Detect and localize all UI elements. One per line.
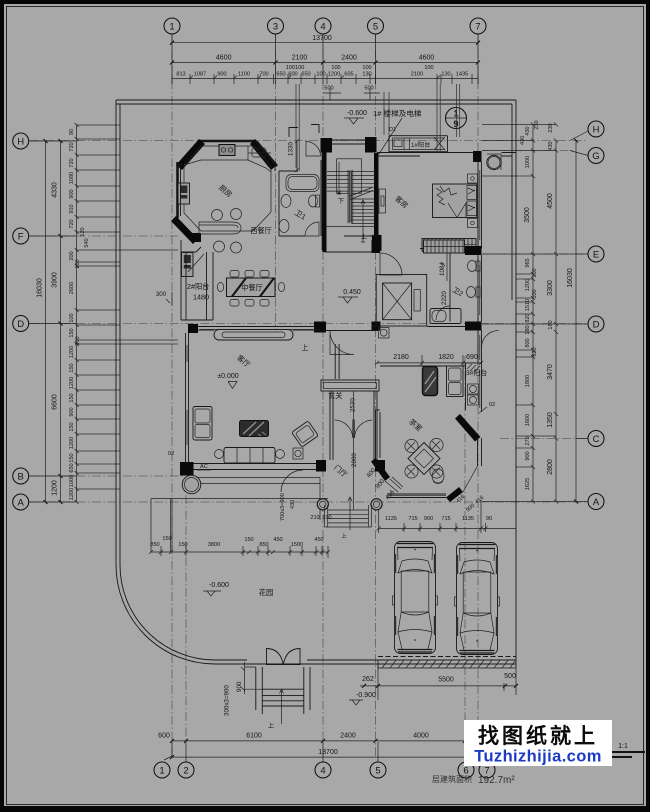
bubble 1 top: [164, 18, 180, 34]
svg-text:4: 4: [320, 22, 325, 33]
svg-text:2800: 2800: [351, 453, 358, 467]
kitchen octagon walls: [171, 139, 277, 244]
svg-text:13700: 13700: [318, 749, 338, 756]
svg-text:900: 900: [217, 72, 226, 78]
left chain ticks: [75, 123, 79, 504]
svg-text:820: 820: [525, 313, 531, 322]
entrance double door: [335, 420, 372, 439]
svg-text:6600: 6600: [52, 394, 59, 410]
grid row E right: [482, 253, 588, 255]
svg-text:1200: 1200: [69, 488, 75, 500]
level -0.600 upper: [344, 110, 367, 124]
west dining bar counter: [199, 222, 241, 234]
svg-text:430: 430: [290, 500, 296, 509]
side table next to armchair: [293, 448, 303, 459]
svg-text:150: 150: [244, 537, 253, 543]
round column top-right: [487, 154, 501, 170]
svg-text:F: F: [18, 232, 24, 243]
svg-text:1200: 1200: [69, 377, 75, 389]
entry double door leaves: [267, 649, 284, 665]
living bottom wall: [180, 464, 326, 470]
quilt scribble: [436, 186, 457, 205]
svg-text:1080: 1080: [69, 172, 75, 184]
bubble H right: [588, 121, 604, 137]
svg-text:650: 650: [69, 463, 75, 472]
grid row H: [30, 140, 588, 142]
bath2 door arc: [436, 306, 450, 320]
svg-text:720: 720: [69, 158, 75, 167]
svg-text:5500: 5500: [438, 677, 454, 684]
svg-text:1435: 1435: [456, 72, 468, 78]
bay SE wall to column: [463, 466, 478, 492]
left grid bubbles: [13, 133, 29, 510]
living top sideboard: [200, 330, 320, 341]
svg-text:500: 500: [504, 673, 516, 680]
svg-text:A: A: [18, 498, 25, 509]
svg-text:90: 90: [69, 129, 75, 135]
svg-text:190: 190: [322, 515, 331, 521]
svg-text:Tuzhizhijia.com: Tuzhizhijia.com: [474, 748, 602, 766]
bath2 toilet 2: [467, 287, 481, 298]
left dim line 16030: [37, 139, 48, 504]
svg-text:2#阳台: 2#阳台: [187, 282, 209, 291]
svg-text:1: 1: [169, 22, 174, 33]
svg-text:720: 720: [69, 219, 75, 228]
living left wall with windows: [186, 333, 189, 463]
stairs: [327, 159, 376, 227]
svg-text:1#阳台: 1#阳台: [411, 141, 430, 149]
bottom bubble leaders: [164, 722, 484, 762]
level -0.900: [349, 692, 376, 705]
svg-text:花园: 花园: [259, 588, 273, 597]
site boundary wall top (double line): [116, 100, 516, 104]
svg-text:1200: 1200: [52, 480, 59, 496]
fold triangle: [457, 203, 466, 218]
svg-text:1# 楼梯及电梯: 1# 楼梯及电梯: [373, 108, 422, 118]
bedroom window mid line: [479, 370, 481, 408]
bubble 7 bottom: [479, 762, 495, 778]
svg-text:-0.900: -0.900: [356, 692, 376, 699]
bubble D right: [588, 316, 604, 332]
svg-text:500: 500: [364, 86, 373, 92]
svg-text:230: 230: [534, 120, 540, 129]
bottom dim 13700: [170, 749, 480, 759]
svg-text:02: 02: [168, 451, 174, 457]
bubble 2 bottom: [178, 762, 194, 778]
svg-text:300x3=900: 300x3=900: [224, 685, 231, 716]
svg-text:中餐厅: 中餐厅: [241, 283, 263, 292]
kitchen left wall parallel: [180, 164, 182, 216]
chairs top: [230, 271, 239, 278]
corridor bottom wall: [427, 326, 465, 328]
svg-text:100: 100: [532, 268, 538, 277]
svg-text:900: 900: [525, 451, 531, 460]
porch up arrow: [348, 497, 352, 530]
black column living SW: [180, 462, 194, 476]
grid col 1: [171, 34, 173, 756]
3# balcony: [466, 363, 488, 412]
porch round column E: [371, 499, 382, 510]
svg-text:200: 200: [69, 251, 75, 260]
wall extension double lines from top chain: [296, 84, 460, 171]
tea room bay: left wall: [376, 410, 381, 461]
svg-text:3300: 3300: [547, 280, 554, 296]
svg-text:2100: 2100: [292, 55, 308, 62]
bubble H left: [13, 133, 29, 149]
right dim line 16030: [567, 139, 578, 504]
steps: [262, 689, 304, 706]
foyer side walls: [330, 391, 377, 460]
svg-text:6100: 6100: [246, 733, 262, 740]
svg-text:850: 850: [150, 542, 159, 548]
svg-text:900: 900: [236, 681, 243, 692]
svg-text:650: 650: [276, 72, 285, 78]
bathtub: [286, 175, 319, 192]
svg-text:1: 1: [159, 766, 164, 777]
site boundary rounded corner arc bottom-left: [116, 565, 215, 664]
tea chairs: [405, 438, 443, 478]
garden steps dim chain: [149, 536, 330, 558]
bubble B left: [13, 468, 29, 484]
svg-text:900: 900: [424, 516, 433, 522]
bubble 4 top: [315, 18, 331, 34]
svg-text:100: 100: [424, 65, 433, 71]
top grid bubbles: [164, 18, 486, 34]
wall segment foyer top: [326, 330, 378, 332]
kitchen NW corner wall: [176, 139, 205, 170]
svg-text:910: 910: [69, 204, 75, 213]
bottom grid bubbles: [154, 762, 495, 778]
svg-text:650: 650: [301, 72, 310, 78]
svg-text:275: 275: [525, 436, 531, 445]
stair arrows: [337, 162, 341, 194]
bubble 4 bottom: [315, 762, 331, 778]
svg-text:层建筑面积: 层建筑面积: [432, 774, 472, 784]
small stool: [432, 469, 444, 484]
grid col 6: [464, 356, 466, 742]
svg-text:上: 上: [361, 233, 367, 241]
corridor bottom door arc to foyer: [330, 331, 354, 355]
coffee table dark: [240, 421, 269, 437]
garden level -0.600: [203, 582, 229, 596]
bubble 1 bottom: [154, 762, 170, 778]
kitchen top wall: [198, 140, 256, 143]
hatch marks chamfer windows: [390, 477, 403, 489]
bubble E right: [588, 246, 604, 262]
svg-text:3900: 3900: [52, 272, 59, 288]
scale mark 1:1 right of watermark: [607, 743, 645, 757]
bubble 3 top: [268, 18, 284, 34]
elevator shaft: [376, 275, 427, 327]
svg-text:1:1: 1:1: [618, 743, 628, 750]
svg-text:下: 下: [338, 198, 344, 205]
bay chamfer SE thick: [446, 487, 463, 502]
svg-text:1200: 1200: [69, 437, 75, 449]
garden terrace edge line: [151, 498, 328, 500]
svg-text:1200: 1200: [525, 279, 531, 291]
bedroom right wall with window: [478, 162, 482, 249]
wall top of stair hall: [332, 140, 365, 144]
closet above bath2: [424, 240, 465, 253]
wall west below kitchen: [180, 240, 182, 252]
tea table diamond: [408, 443, 440, 475]
svg-text:150: 150: [69, 328, 75, 337]
stair SE column: [372, 235, 382, 251]
column bath2 SE: [465, 322, 482, 331]
grid row C right: [500, 438, 588, 440]
svg-text:7: 7: [475, 22, 480, 33]
bedroom wardrobe: [422, 239, 476, 252]
living door arc to terrace: [281, 470, 303, 492]
svg-text:D: D: [17, 319, 24, 330]
svg-text:430: 430: [548, 141, 554, 150]
svg-text:4000: 4000: [413, 733, 429, 740]
svg-text:430: 430: [520, 136, 526, 145]
tea room north wall: [380, 365, 466, 367]
elevator hall door arc: [380, 253, 402, 275]
car 2: [455, 543, 500, 655]
bath2 toilet 1: [468, 261, 481, 272]
bubble G right: [588, 148, 604, 164]
svg-text:192.7m²: 192.7m²: [478, 775, 515, 786]
kitchen interior outline: [184, 146, 271, 231]
svg-text:1087: 1087: [194, 72, 206, 78]
svg-text:700x3=900: 700x3=900: [280, 493, 286, 521]
svg-text:3: 3: [273, 22, 278, 33]
kitchen left wall: [176, 162, 179, 218]
bubble A left: [13, 494, 29, 510]
svg-text:02: 02: [489, 402, 495, 408]
bubble C right: [588, 431, 604, 447]
svg-text:850: 850: [259, 542, 268, 548]
bath1 door arc: [305, 222, 319, 236]
entry porch steps: [224, 649, 311, 731]
right mid dim chain: [547, 123, 558, 504]
window ticks right wall: [479, 265, 481, 360]
bubble 5 top: [368, 18, 384, 34]
svg-text:3470: 3470: [547, 364, 554, 380]
svg-text:H: H: [593, 125, 600, 136]
svg-text:找图纸就上: 找图纸就上: [478, 724, 598, 748]
svg-text:3#阳台: 3#阳台: [466, 368, 487, 377]
svg-text:G: G: [592, 151, 599, 162]
bath1 washbasin: [281, 195, 291, 208]
svg-text:4: 4: [320, 766, 325, 777]
tea room wash basin small: [379, 328, 390, 339]
kitchen fridge left: [178, 183, 190, 204]
corner bracket marks: [289, 125, 319, 138]
bay chamfer SW window: [385, 481, 398, 492]
svg-text:4500: 4500: [547, 193, 554, 209]
fridge dark hatched: [423, 367, 438, 396]
garden step rails left: [151, 499, 172, 553]
bubble D left: [13, 316, 29, 332]
diagonal dims right 416/900/416: [455, 494, 485, 514]
svg-text:16030: 16030: [37, 278, 44, 298]
grid row B: [30, 475, 185, 477]
center arrow line: [280, 689, 284, 724]
site boundary wall bottom: [215, 660, 516, 664]
black column dining SW: [188, 324, 198, 333]
stairwell right wall: [374, 153, 379, 236]
svg-text:上: 上: [268, 722, 274, 730]
svg-text:5: 5: [375, 766, 380, 777]
svg-text:1600: 1600: [525, 414, 531, 426]
right grid bubbles: [588, 121, 604, 510]
svg-text:-0.600: -0.600: [209, 582, 229, 589]
small note AC: [197, 464, 211, 470]
black column porch E: [375, 460, 385, 472]
corridor walls left of elevator: [325, 252, 377, 326]
svg-text:4600: 4600: [419, 55, 435, 62]
svg-text:150: 150: [69, 453, 75, 462]
bedroom top-right column: [473, 151, 482, 162]
svg-text:262: 262: [362, 676, 374, 683]
svg-text:AC: AC: [200, 464, 208, 470]
tea cabinet 2seat: [447, 366, 464, 397]
svg-text:1000: 1000: [69, 475, 75, 487]
svg-text:150: 150: [69, 393, 75, 402]
svg-text:16030: 16030: [567, 268, 574, 288]
grid col 7: [477, 34, 479, 722]
svg-text:1800: 1800: [525, 375, 531, 387]
terrace edge below living: [193, 478, 320, 521]
bed: [433, 184, 478, 218]
svg-text:4330: 4330: [52, 182, 59, 198]
chairs bottom: [230, 300, 239, 307]
right extension ladder: [482, 125, 576, 502]
bottom dim chain 600/6100/2400/4000: [158, 733, 480, 743]
svg-text:1330: 1330: [288, 142, 295, 156]
balcony cabinet: [182, 253, 194, 277]
svg-text:100: 100: [69, 313, 75, 322]
bath1 walls: [256, 141, 323, 250]
svg-text:1135: 1135: [462, 516, 474, 522]
mid dining room table: [217, 271, 284, 307]
svg-text:130: 130: [441, 72, 450, 78]
svg-text:1135: 1135: [385, 516, 397, 522]
kitchen NE corner wall: [250, 139, 277, 170]
garage apron hatched strip: [378, 657, 516, 669]
svg-text:B: B: [18, 472, 24, 483]
level 0.450: [338, 289, 361, 303]
nightstand bottom: [468, 219, 478, 228]
svg-text:0.450: 0.450: [343, 289, 361, 296]
tea room west wall top: [376, 409, 381, 411]
right house wall bath2 to balcony double: [477, 255, 479, 322]
svg-text:90: 90: [486, 516, 492, 522]
svg-text:1350: 1350: [547, 412, 554, 428]
svg-text:100: 100: [316, 72, 325, 78]
bedroom top wall: [377, 153, 473, 157]
bath1 toilet: [309, 195, 318, 207]
foyer screen cabinet: [321, 380, 379, 391]
svg-text:100: 100: [532, 289, 538, 298]
grid row F: [30, 235, 178, 237]
grid col 3: [275, 34, 277, 330]
svg-text:A: A: [593, 497, 600, 508]
svg-text:2400: 2400: [341, 55, 357, 62]
top chain tick marks: [172, 74, 478, 84]
tea room chamfer wall NE thick: [455, 414, 481, 442]
svg-text:813: 813: [176, 72, 185, 78]
corridor wall lines above foyer: [335, 344, 339, 379]
black column dining SE: [314, 322, 326, 333]
svg-text:1500: 1500: [291, 542, 303, 548]
leader lines left bubbles: [29, 141, 76, 502]
left detail chain: [69, 125, 90, 502]
bath2 walls: [450, 253, 482, 322]
pillows headboard: [467, 186, 477, 200]
svg-text:1510: 1510: [525, 299, 531, 311]
svg-text:540: 540: [84, 238, 90, 247]
porch round column W: [317, 499, 328, 510]
stairwell left wall: [322, 153, 326, 253]
svg-text:D: D: [593, 320, 600, 331]
svg-text:西餐厅: 西餐厅: [250, 226, 272, 235]
svg-text:2100: 2100: [411, 72, 423, 78]
svg-text:715: 715: [441, 516, 450, 522]
kitchen right wall to dining: [274, 166, 276, 171]
grid row G right: [482, 150, 575, 152]
svg-text:800: 800: [525, 338, 531, 347]
bar stools: [212, 210, 223, 221]
grid col 2: [185, 495, 187, 742]
svg-text:180: 180: [548, 320, 554, 329]
svg-text:715: 715: [408, 516, 417, 522]
svg-text:2: 2: [183, 766, 188, 777]
bubble 5 bottom: [370, 762, 386, 778]
svg-text:上: 上: [302, 343, 309, 352]
svg-text:450: 450: [273, 537, 282, 543]
bath2 washbasin counter: [430, 309, 461, 324]
armchair rotated: [292, 421, 319, 447]
svg-text:1820: 1820: [438, 354, 454, 361]
2# balcony: [181, 252, 213, 320]
svg-text:1200: 1200: [328, 72, 340, 78]
kitchen sink: [252, 148, 266, 157]
grid row A: [30, 501, 588, 503]
bay bottom window: [387, 494, 446, 498]
left extension ladder lines: [77, 125, 178, 489]
step side rails: [256, 667, 310, 714]
svg-text:2600: 2600: [69, 282, 75, 294]
right bubble leaders: [570, 131, 588, 502]
svg-text:100: 100: [362, 65, 371, 71]
svg-text:430: 430: [525, 126, 531, 135]
svg-text:2800: 2800: [547, 459, 554, 475]
bay chamfer SW thick: [371, 458, 390, 481]
diagonal dims left 400/900/416: [365, 466, 396, 501]
svg-text:D1: D1: [389, 127, 396, 133]
svg-text:690: 690: [466, 354, 478, 361]
watermark box: [464, 720, 612, 766]
grid row D: [30, 323, 588, 325]
svg-text:-0.600: -0.600: [347, 110, 367, 117]
grid col 4: [322, 34, 324, 756]
bubble F left: [13, 228, 29, 244]
svg-text:1625: 1625: [525, 478, 531, 490]
svg-text:13700: 13700: [312, 35, 332, 42]
bath1 top wall: [279, 170, 298, 172]
svg-text:±0.000: ±0.000: [217, 373, 238, 380]
svg-text:3500: 3500: [524, 207, 531, 223]
grid col 5: [375, 34, 377, 756]
1# balcony top: [389, 136, 448, 152]
svg-text:9: 9: [453, 119, 458, 129]
svg-text:150: 150: [69, 363, 75, 372]
svg-text:150: 150: [69, 422, 75, 431]
